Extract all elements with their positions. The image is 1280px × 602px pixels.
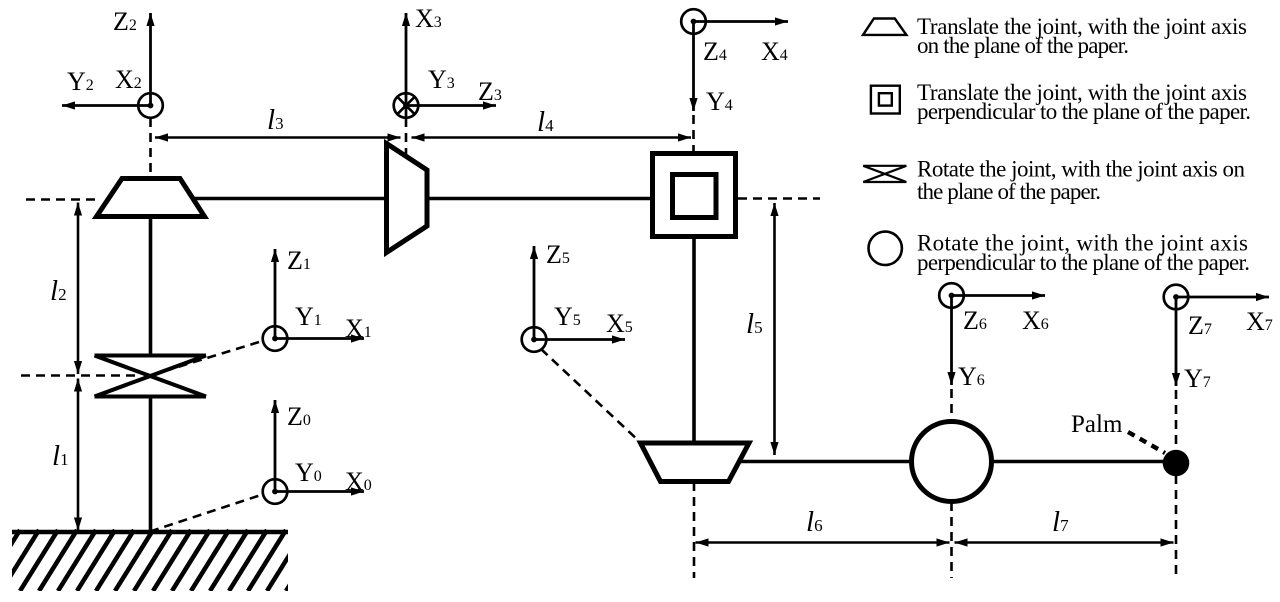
dashed extension below joint5 — [693, 482, 696, 578]
ground surface line — [12, 530, 288, 534]
palm label leader dashed — [1128, 432, 1165, 453]
dashed extension below joint6 — [950, 502, 953, 578]
wire link1 base to joint2 — [149, 396, 153, 532]
dimension l5 — [773, 203, 776, 455]
frame 3 — [394, 93, 419, 118]
dashed line left of joint2 — [26, 198, 95, 201]
palm end effector dot — [1163, 450, 1190, 477]
dashed axis frame2 to joint2 — [149, 118, 152, 178]
legend symbol square in square — [871, 86, 900, 114]
svg-text:Rotate the joint, with the joi: Rotate the joint, with the joint axis on — [917, 157, 1246, 182]
dimension l1 — [77, 379, 80, 531]
dashed line left of joint1 bowtie — [21, 374, 140, 377]
joint J3 prismatic trapezoid rotated — [387, 144, 428, 253]
wire link2 joint2 to joint3 — [149, 217, 153, 356]
frame 1 — [263, 326, 288, 351]
joint J5 prismatic trapezoid inverted — [641, 443, 750, 482]
dimension l4 — [412, 136, 692, 139]
svg-text:the plane of the paper.: the plane of the paper. — [917, 179, 1101, 204]
dimension l2 — [77, 203, 80, 375]
dashed line right of joint4 — [738, 197, 820, 200]
svg-text:Palm: Palm — [1071, 411, 1123, 438]
dimension l6 — [696, 541, 950, 544]
frame 5 — [522, 327, 547, 352]
svg-text:perpendicular to the plane of: perpendicular to the plane of the paper. — [917, 250, 1250, 275]
frame 0 — [263, 479, 288, 504]
wire link5 horizontal joint5 to palm — [733, 460, 1176, 464]
dashed leader base to frame0 — [150, 494, 264, 532]
wire link3 horizontal joint3 to joint4 — [188, 197, 655, 201]
dashed leader frame5 to joint5 — [541, 349, 641, 443]
wire link4 vertical joint4 to joint5 — [692, 236, 696, 446]
dashed leader joint1 to frame1 — [150, 341, 264, 376]
legend symbol circle — [869, 232, 902, 265]
dashed axis frame4 to joint4 — [692, 115, 695, 152]
joint J4 prismatic square outer — [653, 154, 736, 237]
dimension l3 — [155, 136, 401, 139]
frame 6 — [939, 283, 964, 308]
svg-text:perpendicular to the plane of: perpendicular to the plane of the paper. — [917, 99, 1251, 124]
frame 4 — [681, 9, 706, 34]
joint J4 prismatic square inner — [673, 175, 717, 218]
legend symbol bowtie — [863, 166, 906, 182]
frame 7 — [1164, 285, 1189, 310]
svg-text:on the plane of the paper.: on the plane of the paper. — [917, 33, 1129, 58]
legend symbol trapezoid — [863, 19, 906, 35]
dashed extension below palm — [1175, 475, 1178, 578]
dimension l7 — [955, 541, 1174, 544]
joint J6 revolute circle — [912, 422, 992, 502]
joint J2 prismatic trapezoid — [97, 179, 205, 217]
joint J1 revolute bowtie — [95, 356, 207, 397]
ground hatched base — [0, 530, 324, 591]
dashed axis frame7 to palm — [1175, 390, 1178, 449]
frame 2 — [138, 93, 163, 118]
dashed axis frame6 to joint6 — [950, 389, 953, 421]
dashed axis frame3 to joint3 — [405, 118, 408, 156]
